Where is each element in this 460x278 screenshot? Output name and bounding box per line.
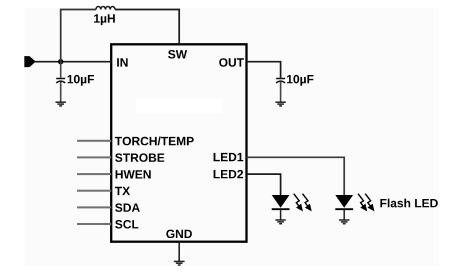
wire: OUT pin to capacitor C2 — [247, 62, 281, 78]
wire: input terminal to IN pin — [35, 61, 111, 63]
pin label SCL — [115, 220, 138, 229]
input connector (VIN terminal) — [24, 56, 35, 67]
pin label STROBE — [115, 153, 164, 162]
ground (GND pin) — [174, 261, 185, 265]
wire: C2 to ground — [280, 82, 282, 102]
capacitor C2 10uF (output) — [276, 79, 285, 83]
value label 1uH — [94, 14, 115, 25]
ground (output cap) — [275, 102, 285, 106]
inductor L1 1uH — [96, 7, 115, 10]
pin label GND — [166, 230, 192, 239]
pin label IN — [117, 58, 127, 66]
wire: C1 to ground — [60, 82, 62, 102]
wire stub: SCL pin — [77, 223, 111, 225]
wire: junction down to capacitor C1 — [60, 62, 62, 78]
pin label TORCH/TEMP — [115, 137, 194, 146]
light emission arrows (LED D1) — [358, 194, 373, 210]
wire: GND pin to ground — [178, 242, 180, 261]
pin label LED1 — [214, 153, 244, 161]
node junction at input — [58, 59, 63, 64]
pin label SW — [168, 50, 187, 59]
wire stub: STROBE pin — [77, 156, 111, 158]
value label 10uF (output cap) — [287, 75, 313, 86]
ground (LED D1) — [339, 220, 349, 224]
pin label OUT — [219, 58, 244, 66]
ground (input cap) — [56, 102, 66, 106]
wire: LED2 pin to LED D2 — [247, 174, 281, 195]
IC U1 (flash LED driver) — [111, 44, 246, 241]
pin label HWEN — [116, 170, 151, 178]
LED D2 (on LED2 pin) — [272, 195, 290, 220]
wire: LED1 pin to flash LED D1 — [247, 157, 345, 195]
net label Flash LED — [380, 199, 437, 208]
light emission arrows (LED D2) — [294, 194, 311, 210]
ground (LED D2) — [275, 220, 285, 224]
pin label SDA — [115, 203, 140, 212]
LED D1 flash LED (on LED1 pin) — [335, 195, 353, 220]
pin label TX — [115, 187, 130, 195]
wire: junction up to inductor — [61, 10, 96, 62]
wire stub: SDA pin — [77, 206, 111, 208]
pin label LED2 — [214, 170, 243, 178]
wire stub: TORCH/TEMP pin — [77, 140, 111, 142]
capacitor C1 10uF (input) — [56, 79, 65, 83]
value label 10uF (input cap) — [68, 75, 94, 86]
wire: inductor to SW pin — [115, 10, 179, 45]
wire stub: TX pin — [77, 190, 111, 192]
redacted part-number area inside U1 — [136, 99, 222, 113]
wire stub: HWEN pin — [77, 173, 111, 175]
